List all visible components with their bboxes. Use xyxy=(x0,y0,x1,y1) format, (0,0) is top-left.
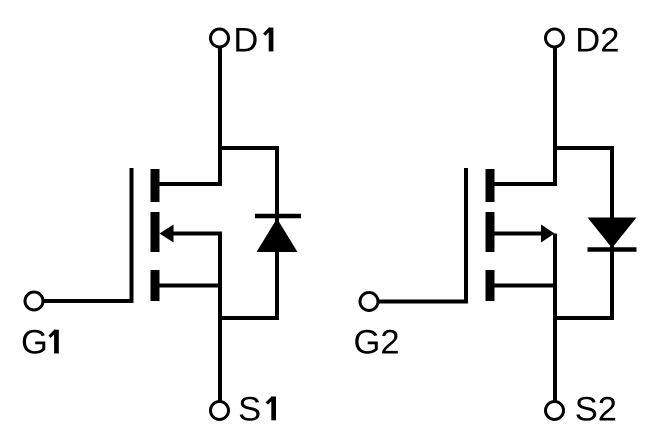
svg-text:G: G xyxy=(21,324,48,362)
transistor Q1 arrow (P-channel, pointing to gate) xyxy=(160,225,174,243)
transistor Q2 drain channel bar xyxy=(486,169,495,202)
node G2 terminal circle xyxy=(360,293,378,311)
node D1 terminal circle xyxy=(211,29,229,47)
wire G1 lead xyxy=(44,299,134,303)
diode D2 cathode bar xyxy=(588,247,637,252)
transistor Q2 body channel bar xyxy=(486,212,495,252)
diode D2 triangle (anode, pointing down) xyxy=(588,218,637,249)
svg-text:S: S xyxy=(238,390,261,428)
svg-text:G2: G2 xyxy=(354,324,400,362)
svg-text:S2: S2 xyxy=(575,390,617,428)
wire G2 lead xyxy=(379,300,468,304)
node label D1 xyxy=(233,21,273,59)
wire S1 stem xyxy=(218,286,222,402)
transistor Q1 drain channel bar xyxy=(151,169,160,202)
wire Q1 drain connection xyxy=(155,182,222,186)
transistor Q2 arrow (N-channel, pointing right) xyxy=(541,225,555,243)
transistor Q2 gate vertical plate xyxy=(464,168,468,303)
wire diode D1 top branch xyxy=(218,146,279,150)
wire diode D1 bottom branch xyxy=(218,316,279,320)
wire Q2 source connection xyxy=(490,284,557,288)
node S2 terminal circle xyxy=(546,402,564,420)
wire Q2 drain connection xyxy=(490,182,557,186)
wire diode branch vertical xyxy=(275,146,279,320)
transistor Q1 gate vertical plate xyxy=(130,168,134,303)
wire D1 stem xyxy=(218,48,222,187)
wire Q1 body/arrow connection xyxy=(172,232,222,236)
node S1 terminal circle xyxy=(211,402,229,420)
wire D2 stem xyxy=(553,48,557,187)
wire Q1 body to source vertical xyxy=(218,234,222,286)
wire diode D2 top branch xyxy=(553,146,614,150)
transistor Q2 source channel bar xyxy=(486,270,495,301)
wire Q2 body/arrow connection xyxy=(495,232,543,236)
node D2 terminal circle xyxy=(546,29,564,47)
diode D1 cathode bar xyxy=(255,214,301,219)
wire S2 stem xyxy=(553,286,557,402)
svg-text:D2: D2 xyxy=(575,21,619,59)
wire diode D2 branch vertical xyxy=(610,146,614,320)
wire Q1 source connection xyxy=(155,284,222,288)
transistor Q1 source channel bar xyxy=(151,270,160,301)
diode D1 triangle (anode, pointing up) xyxy=(257,219,298,253)
node label S1 xyxy=(238,390,276,428)
transistor Q1 body channel bar xyxy=(151,212,160,252)
svg-text:D: D xyxy=(233,21,258,59)
node G1 terminal circle xyxy=(25,292,43,310)
wire diode D2 bottom branch xyxy=(553,316,614,320)
wire Q2 body to source vertical xyxy=(553,234,557,286)
node label G1 xyxy=(21,324,59,362)
